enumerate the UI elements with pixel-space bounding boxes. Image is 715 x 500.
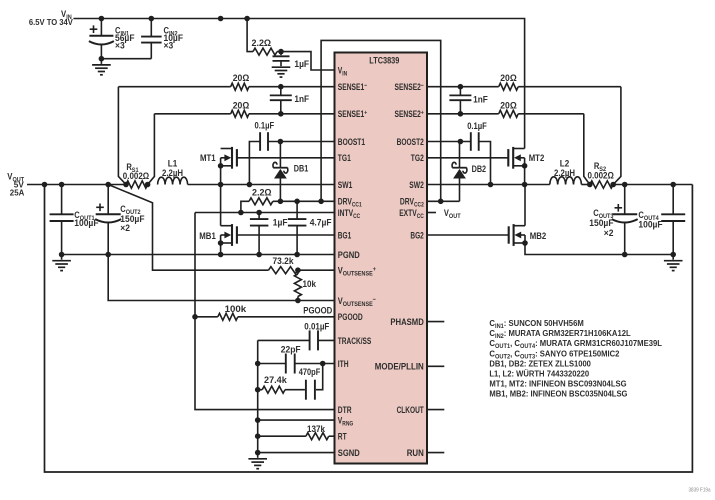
label 1uF intvcc bbox=[273, 217, 288, 227]
pin SENSE2+ bbox=[395, 109, 424, 119]
resistor 20R sense2- bbox=[499, 83, 519, 90]
ground SGND bbox=[248, 453, 267, 469]
wire VOUTSENSE+ takeoff bbox=[108, 185, 268, 271]
svg-text:+: + bbox=[421, 110, 424, 117]
label 2.2R drvcc bbox=[252, 187, 272, 197]
inductor L2 bbox=[550, 177, 582, 185]
svg-text:1nF: 1nF bbox=[473, 95, 488, 105]
svg-text:MB2: MB2 bbox=[530, 231, 547, 241]
capacitor 1nF sense1 bbox=[270, 87, 292, 114]
pin PHASMD bbox=[390, 317, 424, 327]
svg-text:3839 F19a: 3839 F19a bbox=[689, 488, 711, 494]
transistor MT1 bbox=[218, 147, 237, 185]
label COUT1 bbox=[74, 210, 99, 228]
wire kelvin sense1- bbox=[118, 87, 126, 185]
svg-text:EXTV: EXTV bbox=[399, 208, 417, 218]
svg-text:LTC3839: LTC3839 bbox=[369, 56, 399, 66]
label BOM line5 bbox=[489, 358, 591, 368]
svg-text:OUT4: OUT4 bbox=[520, 343, 536, 350]
svg-text:CC: CC bbox=[353, 213, 360, 220]
wire SW2 rail bbox=[427, 182, 550, 188]
svg-text:10k: 10k bbox=[303, 279, 317, 289]
label MB2 bbox=[530, 231, 547, 241]
pin SENSE1+ bbox=[338, 109, 367, 119]
ground CIN bbox=[92, 59, 111, 75]
svg-text:20Ω: 20Ω bbox=[233, 100, 250, 110]
capacitor 1uF VIN bbox=[273, 52, 290, 61]
label COUT2 + bbox=[96, 204, 104, 212]
wire SENSE1+ bbox=[154, 111, 334, 117]
label BOM line6 bbox=[489, 369, 589, 379]
resistor 20R sense2+ bbox=[499, 110, 519, 117]
svg-text:: SUNCON 50HVH56M: : SUNCON 50HVH56M bbox=[504, 318, 584, 328]
wire VRNG bbox=[258, 419, 335, 421]
label COUT3 + bbox=[615, 204, 623, 212]
wire kelvin sense2- bbox=[613, 87, 621, 185]
wire BG2 bbox=[427, 234, 509, 236]
svg-text:27.4k: 27.4k bbox=[264, 375, 288, 385]
svg-text:OUT: OUT bbox=[449, 213, 461, 220]
wire VOUT rail right bbox=[613, 182, 692, 188]
svg-text:×3: ×3 bbox=[115, 41, 125, 51]
svg-text:2.2Ω: 2.2Ω bbox=[252, 38, 272, 48]
svg-text:DB2: DB2 bbox=[472, 164, 487, 174]
label LTC3839 bbox=[369, 56, 399, 66]
transistor MB2 bbox=[509, 185, 528, 246]
svg-text:SENSE2: SENSE2 bbox=[395, 82, 421, 92]
svg-text:4.7µF: 4.7µF bbox=[310, 217, 332, 227]
resistor 137k bbox=[258, 433, 335, 440]
pin TG2 bbox=[411, 153, 424, 163]
capacitor 0.01uF trackss bbox=[258, 330, 335, 350]
label RS2 bbox=[588, 161, 614, 181]
capacitor 1nF sense2 bbox=[449, 87, 471, 114]
wire EXTVCC stub bbox=[427, 212, 436, 214]
pin VRNG bbox=[338, 416, 353, 428]
label BOM line2 bbox=[489, 328, 630, 340]
svg-text:2.2µH: 2.2µH bbox=[162, 168, 183, 178]
wire SENSE2- bbox=[427, 84, 621, 90]
resistor 27.4k bbox=[258, 386, 285, 393]
svg-text:MB1, MB2: INFINEON BSC035N04LS: MB1, MB2: INFINEON BSC035N04LSG bbox=[489, 389, 627, 399]
wire CLKOUT stub bbox=[427, 409, 444, 411]
pin MODE/PLLIN bbox=[375, 362, 424, 372]
svg-text:1µF: 1µF bbox=[294, 59, 309, 69]
label VIN supply bbox=[61, 9, 72, 21]
label BOM line4 bbox=[489, 348, 619, 360]
label DB1 bbox=[294, 163, 309, 173]
pin PGOOD bbox=[338, 312, 363, 322]
svg-text:SENSE1: SENSE1 bbox=[338, 82, 364, 92]
svg-text:MB1: MB1 bbox=[199, 231, 216, 241]
wire SENSE2+ bbox=[427, 111, 584, 117]
svg-text:CC1: CC1 bbox=[352, 202, 362, 209]
svg-text:137k: 137k bbox=[307, 424, 326, 434]
label VOUT extvcc bbox=[444, 208, 461, 220]
label 1uF VIN bbox=[294, 59, 309, 69]
svg-text:1nF: 1nF bbox=[294, 94, 309, 104]
pin DRVCC1 bbox=[338, 197, 362, 209]
label 2.2R VIN bbox=[252, 38, 272, 48]
svg-text:DRV: DRV bbox=[338, 197, 353, 207]
label RS1 bbox=[123, 162, 149, 181]
wire PHASMD stub bbox=[427, 321, 444, 323]
inductor L1 bbox=[158, 177, 188, 184]
resistor 10k bbox=[294, 270, 301, 300]
wire VIN pin bbox=[277, 49, 335, 70]
svg-text:470pF: 470pF bbox=[299, 367, 321, 377]
ground COUT left bbox=[52, 255, 71, 271]
svg-text:25A: 25A bbox=[10, 187, 25, 197]
svg-text:SGND: SGND bbox=[338, 448, 360, 458]
svg-text:20Ω: 20Ω bbox=[500, 73, 517, 83]
svg-text:TG2: TG2 bbox=[411, 153, 424, 163]
pin SW1 bbox=[338, 180, 353, 190]
label 20R s2m bbox=[500, 73, 517, 83]
svg-text:OUTSENSE: OUTSENSE bbox=[343, 301, 373, 308]
pin VOUTSENSE+ bbox=[338, 266, 376, 278]
resistor 73.2k bbox=[269, 267, 335, 274]
capacitor 0.1uF boost2 bbox=[427, 132, 491, 184]
svg-text:PHASMD: PHASMD bbox=[390, 317, 424, 327]
pin DTR bbox=[338, 405, 352, 415]
label 0.1uF left bbox=[255, 121, 275, 131]
svg-text:CC: CC bbox=[417, 213, 424, 220]
svg-text:SW2: SW2 bbox=[409, 180, 424, 190]
op-amp U1 LTC3839 body bbox=[335, 53, 428, 464]
label 20R s2p bbox=[500, 100, 517, 110]
pin TG1 bbox=[338, 153, 351, 163]
svg-text:TG1: TG1 bbox=[338, 153, 351, 163]
svg-text:IN: IN bbox=[342, 70, 347, 77]
wire MODE/PLLIN stub bbox=[427, 365, 444, 367]
svg-text:DTR: DTR bbox=[338, 405, 352, 415]
label CIN2 value bbox=[164, 26, 184, 51]
label 0.01uF bbox=[304, 322, 329, 332]
svg-text:BOOST2: BOOST2 bbox=[397, 137, 424, 147]
svg-text:ITH: ITH bbox=[338, 359, 349, 369]
wire SGND vertical bbox=[255, 340, 335, 455]
svg-text:150µF: 150µF bbox=[589, 218, 614, 228]
resistor 20R sense1+ bbox=[231, 110, 249, 117]
svg-text:BOOST1: BOOST1 bbox=[338, 137, 365, 147]
pin SENSE2- bbox=[395, 82, 424, 92]
capacitor COUT2 bbox=[95, 185, 121, 258]
capacitor CIN2 bbox=[101, 19, 161, 59]
label 20R s1m bbox=[233, 73, 250, 83]
svg-text:0.002Ω: 0.002Ω bbox=[588, 171, 614, 181]
pin PGND bbox=[338, 250, 360, 260]
pin EXTVCC bbox=[399, 208, 424, 220]
svg-text:SENSE2: SENSE2 bbox=[395, 109, 421, 119]
svg-text:RT: RT bbox=[338, 432, 347, 442]
svg-text:MT1: MT1 bbox=[200, 153, 216, 163]
svg-text:SW1: SW1 bbox=[338, 180, 353, 190]
svg-text:BG1: BG1 bbox=[338, 230, 351, 240]
label fig number bbox=[689, 488, 711, 494]
svg-text:−: − bbox=[373, 296, 376, 303]
resistor 2.2R VIN filter bbox=[253, 48, 277, 55]
svg-text:+: + bbox=[373, 266, 376, 273]
svg-text:20Ω: 20Ω bbox=[500, 100, 517, 110]
svg-text:2.2µH: 2.2µH bbox=[554, 168, 575, 178]
capacitor 4.7uF drvcc bbox=[288, 201, 307, 257]
svg-text:0.1µF: 0.1µF bbox=[255, 121, 275, 131]
label 4.7uF bbox=[310, 217, 332, 227]
svg-text:SENSE1: SENSE1 bbox=[338, 109, 364, 119]
svg-text:0.1µF: 0.1µF bbox=[467, 121, 487, 131]
wire PGND right bbox=[525, 244, 673, 255]
label L2 bbox=[554, 159, 575, 178]
label MT2 bbox=[529, 153, 545, 163]
ground VIN filter bbox=[272, 61, 291, 77]
pin TRACK/SS bbox=[338, 336, 372, 346]
wire RUN stub bbox=[427, 452, 444, 454]
label 6.5V TO 34V bbox=[29, 17, 73, 27]
svg-text:OUTSENSE: OUTSENSE bbox=[343, 271, 373, 278]
label BOM line8 bbox=[489, 389, 627, 399]
label 27.4k bbox=[264, 375, 288, 385]
svg-text:, C: , C bbox=[510, 338, 520, 348]
pin VIN bbox=[338, 65, 347, 77]
svg-text:OUT1: OUT1 bbox=[495, 343, 511, 350]
svg-text:PGOOD: PGOOD bbox=[303, 306, 332, 316]
svg-text:DB1: DB1 bbox=[294, 163, 309, 173]
pin BG2 bbox=[410, 230, 423, 240]
capacitor COUT3 bbox=[612, 185, 638, 258]
wire DRVCC2 bbox=[427, 199, 460, 205]
label COUT4 bbox=[638, 210, 663, 230]
svg-text:CLKOUT: CLKOUT bbox=[397, 405, 424, 415]
svg-text:20Ω: 20Ω bbox=[233, 73, 250, 83]
label CIN1 value bbox=[115, 26, 135, 51]
svg-text:0.01µF: 0.01µF bbox=[304, 322, 329, 332]
transistor MB1 bbox=[218, 185, 237, 258]
svg-text:MT1, MT2: INFINEON BSC093N04LS: MT1, MT2: INFINEON BSC093N04LSG bbox=[489, 379, 626, 389]
svg-text:, C: , C bbox=[510, 348, 520, 358]
svg-text:MODE/PLLIN: MODE/PLLIN bbox=[375, 362, 424, 372]
capacitor 1uF intvcc bbox=[250, 213, 269, 258]
pin BG1 bbox=[338, 230, 351, 240]
pin DRVCC2 bbox=[400, 197, 424, 209]
label 0.1uF right bbox=[467, 121, 487, 131]
svg-text:6.5V TO 34V: 6.5V TO 34V bbox=[29, 17, 73, 27]
label DB2 bbox=[472, 164, 487, 174]
pin CLKOUT bbox=[397, 405, 424, 415]
wire INTVCC drop bbox=[192, 213, 334, 410]
wire kelvin sense2+ bbox=[584, 114, 590, 185]
svg-text:−: − bbox=[364, 83, 367, 90]
resistor 2.2R drvcc bbox=[249, 198, 273, 205]
label MT1 bbox=[200, 153, 216, 163]
svg-text:DRV: DRV bbox=[400, 197, 415, 207]
resistor RS2 bbox=[581, 181, 616, 188]
capacitor COUT4 bbox=[661, 185, 685, 258]
capacitor 22pF bbox=[258, 354, 335, 374]
svg-text:DB1, DB2: ZETEX ZLLS1000: DB1, DB2: ZETEX ZLLS1000 bbox=[489, 358, 591, 368]
label 10k bbox=[303, 279, 317, 289]
capacitor 470pF bbox=[285, 364, 323, 400]
svg-text:73.2k: 73.2k bbox=[273, 256, 295, 266]
pin SGND bbox=[338, 448, 360, 458]
pin RUN bbox=[407, 448, 424, 458]
wire INTVCC bbox=[195, 210, 335, 216]
capacitor COUT1 bbox=[50, 185, 74, 258]
svg-text:22pF: 22pF bbox=[281, 344, 301, 354]
wire TG1 bbox=[237, 157, 335, 159]
svg-text:MT2: MT2 bbox=[529, 153, 545, 163]
wire TG2 bbox=[427, 157, 508, 159]
svg-text:0.002Ω: 0.002Ω bbox=[123, 171, 149, 181]
label 100k bbox=[225, 304, 248, 314]
svg-text:PGND: PGND bbox=[338, 250, 360, 260]
svg-text:PGOOD: PGOOD bbox=[338, 312, 363, 322]
wire VOUTSENSE- bbox=[108, 255, 334, 304]
label L1 bbox=[162, 159, 183, 178]
wire VOUT rail bbox=[27, 182, 129, 188]
wire kelvin sense1+ bbox=[148, 114, 155, 185]
svg-text:100µF: 100µF bbox=[638, 220, 663, 230]
label MB1 bbox=[199, 231, 216, 241]
label COUT2 bbox=[120, 204, 145, 233]
pin SW2 bbox=[409, 180, 424, 190]
pin INTVCC bbox=[338, 208, 360, 220]
label COUT3 bbox=[589, 208, 614, 238]
pin ITH bbox=[338, 359, 349, 369]
pin BOOST2 bbox=[397, 137, 424, 147]
label 470pF bbox=[299, 367, 321, 377]
svg-text:−: − bbox=[421, 83, 424, 90]
resistor 100k bbox=[195, 313, 335, 320]
svg-text:×2: ×2 bbox=[120, 223, 130, 233]
label 1nF left bbox=[294, 94, 309, 104]
wire VIN filter drop bbox=[247, 19, 253, 52]
pin RT bbox=[338, 432, 347, 442]
svg-text:TRACK/SS: TRACK/SS bbox=[338, 336, 372, 346]
label 22pF bbox=[281, 344, 301, 354]
wire SW1 rail bbox=[188, 182, 335, 188]
label 137k bbox=[307, 424, 326, 434]
wire DRVCC1 bbox=[238, 199, 334, 216]
label PGOOD net bbox=[303, 306, 332, 316]
ground COUT right bbox=[664, 255, 683, 271]
label 20R s1p bbox=[233, 100, 250, 110]
svg-text:×2: ×2 bbox=[604, 228, 614, 238]
svg-text:100k: 100k bbox=[225, 304, 248, 314]
wire PGND bbox=[62, 254, 335, 256]
svg-text:L1, L2: WÜRTH 7443320220: L1, L2: WÜRTH 7443320220 bbox=[489, 369, 589, 379]
wire SENSE1- bbox=[118, 84, 334, 90]
wire VOUT loop bbox=[45, 185, 693, 473]
svg-text:: SANYO 6TPE150MIC2: : SANYO 6TPE150MIC2 bbox=[535, 348, 619, 358]
diode DB1 bbox=[273, 142, 288, 202]
svg-text:+: + bbox=[364, 110, 367, 117]
label CIN1 + bbox=[90, 25, 98, 33]
svg-text:: MURATA GRM31CR60J107ME39L: : MURATA GRM31CR60J107ME39L bbox=[535, 338, 662, 348]
label BOM line3 bbox=[489, 338, 662, 350]
svg-text:RNG: RNG bbox=[342, 421, 353, 428]
label BOM line1 bbox=[489, 318, 583, 330]
resistor RS1 bbox=[126, 181, 150, 188]
pin VOUTSENSE- bbox=[338, 296, 376, 308]
wire VIN top rail bbox=[73, 16, 524, 149]
diode DB2 bbox=[452, 142, 467, 202]
wire DRVCC loop over IC bbox=[321, 40, 441, 201]
svg-text:RUN: RUN bbox=[407, 448, 424, 458]
svg-text:1µF: 1µF bbox=[273, 217, 288, 227]
wire BG1 bbox=[237, 234, 335, 236]
pin BOOST1 bbox=[338, 137, 365, 147]
transistor MT2 bbox=[508, 147, 527, 185]
label BOM line7 bbox=[489, 379, 626, 389]
resistor 20R sense1- bbox=[231, 83, 249, 90]
label 1nF right bbox=[473, 95, 488, 105]
svg-text:2.2Ω: 2.2Ω bbox=[252, 187, 272, 197]
capacitor CIN1 bbox=[89, 19, 114, 62]
svg-text:INTV: INTV bbox=[338, 208, 354, 218]
pin SENSE1- bbox=[338, 82, 367, 92]
label 73.2k bbox=[273, 256, 295, 266]
svg-text:×3: ×3 bbox=[164, 41, 174, 51]
label VOUT left bbox=[7, 172, 24, 198]
svg-text:BG2: BG2 bbox=[410, 230, 423, 240]
capacitor 0.1uF boost1 bbox=[249, 132, 334, 184]
svg-text:: MURATA GRM32ER71H106KA12L: : MURATA GRM32ER71H106KA12L bbox=[504, 328, 631, 338]
